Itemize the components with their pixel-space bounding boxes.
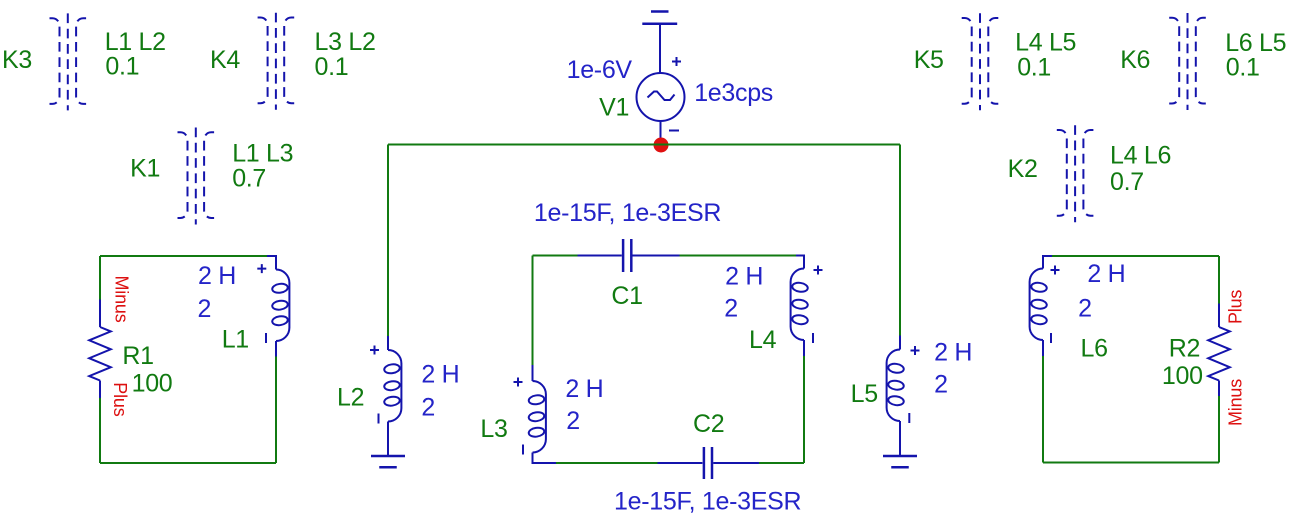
svg-text:2 H: 2 H: [421, 360, 459, 388]
svg-text:0.7: 0.7: [232, 164, 266, 192]
svg-text:2: 2: [724, 295, 738, 323]
svg-text:2 H: 2 H: [725, 262, 763, 290]
wire left loop right lower: [275, 356, 277, 463]
wire ground to V1: [659, 24, 661, 74]
coupling K3: [50, 13, 87, 110]
inductor L4: [791, 256, 823, 357]
wire mid loop top left: [533, 255, 578, 257]
wire top bus: [388, 144, 900, 146]
svg-text:100: 100: [132, 370, 173, 398]
svg-text:2 H: 2 H: [198, 262, 236, 290]
svg-text:L4 L6: L4 L6: [1110, 142, 1171, 170]
ground (L2): [371, 456, 405, 467]
svg-text:1e-15F, 1e-3ESR: 1e-15F, 1e-3ESR: [614, 488, 801, 516]
capacitor C1: [578, 239, 680, 272]
coupling K2: [1057, 125, 1094, 222]
wire right loop right lower: [1218, 396, 1220, 463]
svg-text:0.1: 0.1: [315, 53, 349, 81]
svg-text:R2: R2: [1169, 334, 1200, 362]
wire mid loop left upper: [532, 256, 534, 366]
svg-text:L5: L5: [851, 380, 878, 408]
wire right loop top: [1052, 255, 1219, 257]
wire right loop right upper: [1218, 256, 1220, 304]
inductor L6: [1030, 256, 1060, 356]
svg-text:2 H: 2 H: [565, 375, 603, 403]
wire mid loop top right: [680, 255, 797, 257]
svg-text:L4: L4: [749, 326, 777, 354]
svg-text:2 H: 2 H: [934, 339, 972, 367]
coupling K6: [1169, 13, 1206, 110]
svg-text:Minus: Minus: [112, 276, 132, 323]
wire left loop bottom: [100, 462, 276, 464]
svg-text:C1: C1: [611, 282, 642, 310]
wire mid loop bottom left: [556, 462, 658, 464]
svg-text:K4: K4: [210, 46, 240, 74]
wire mid loop bottom right: [759, 462, 804, 464]
svg-text:1e-6V: 1e-6V: [567, 56, 633, 84]
wire right drop to L5: [899, 145, 901, 336]
svg-text:100: 100: [1162, 362, 1203, 390]
resistor R2: [1208, 304, 1230, 397]
ground (L5): [883, 456, 917, 467]
resistor R1: [89, 300, 111, 399]
wire left loop top: [100, 255, 267, 257]
wire right loop left lower: [1042, 356, 1044, 463]
svg-text:0.1: 0.1: [1226, 54, 1260, 82]
svg-text:1e3cps: 1e3cps: [694, 79, 773, 107]
node junction dot: [654, 138, 669, 153]
svg-text:0.1: 0.1: [1017, 54, 1051, 82]
coupling K1: [178, 128, 215, 225]
wire V1 to node: [660, 121, 662, 139]
svg-text:2: 2: [566, 407, 580, 435]
svg-text:K5: K5: [914, 46, 944, 74]
inductor L1: [257, 256, 289, 357]
svg-text:V1: V1: [599, 93, 629, 121]
svg-text:K1: K1: [130, 155, 160, 183]
inductor L3: [514, 365, 557, 463]
svg-text:L6: L6: [1081, 334, 1108, 362]
svg-text:0.7: 0.7: [1110, 168, 1144, 196]
svg-text:2: 2: [198, 295, 212, 323]
coupling K5: [962, 13, 999, 110]
svg-text:2: 2: [1078, 295, 1092, 323]
wire left drop to L2: [387, 145, 389, 337]
svg-text:L4 L5: L4 L5: [1015, 29, 1076, 57]
source V1: [637, 57, 685, 131]
svg-text:R1: R1: [122, 342, 153, 370]
wire right loop bottom: [1043, 462, 1219, 464]
svg-text:K3: K3: [2, 46, 32, 74]
svg-text:L2: L2: [337, 383, 364, 411]
svg-text:1e-15F, 1e-3ESR: 1e-15F, 1e-3ESR: [534, 199, 721, 227]
svg-text:K6: K6: [1120, 46, 1150, 74]
svg-text:Plus: Plus: [110, 382, 130, 416]
svg-text:0.1: 0.1: [105, 53, 139, 81]
capacitor C2: [658, 447, 760, 479]
svg-text:2 H: 2 H: [1087, 260, 1125, 288]
svg-text:L3 L2: L3 L2: [315, 28, 376, 56]
svg-text:2: 2: [421, 393, 435, 421]
wire left loop left lower: [99, 398, 101, 463]
svg-text:L3: L3: [480, 415, 507, 443]
ground (top, inverted): [642, 12, 677, 24]
inductor L5: [887, 336, 920, 457]
wire left loop left upper: [99, 256, 101, 300]
svg-text:L1: L1: [222, 326, 249, 354]
svg-text:K2: K2: [1008, 155, 1038, 183]
svg-text:Minus: Minus: [1226, 379, 1246, 426]
inductor L2: [370, 336, 401, 456]
svg-text:2: 2: [934, 371, 948, 399]
svg-text:Plus: Plus: [1226, 290, 1246, 324]
wire mid loop right lower: [803, 356, 805, 463]
coupling K4: [258, 13, 295, 110]
svg-text:C2: C2: [693, 410, 724, 438]
